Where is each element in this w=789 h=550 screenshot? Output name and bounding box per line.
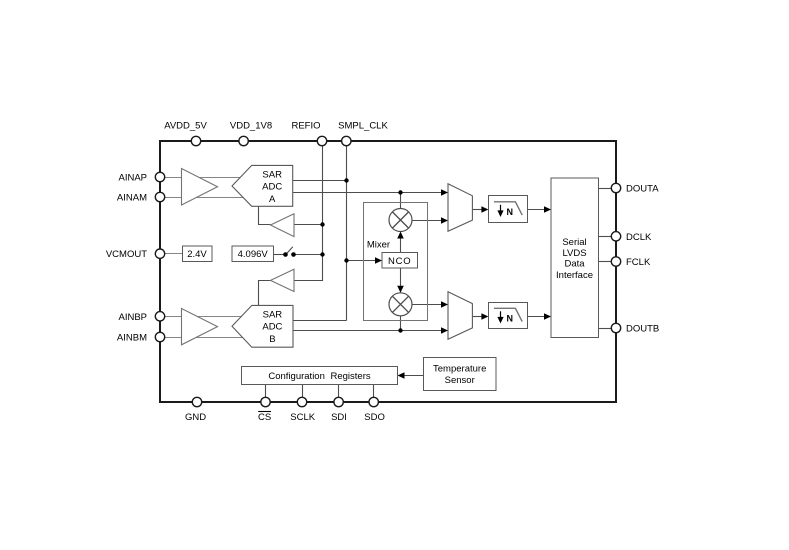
svg-text:Sensor: Sensor: [445, 375, 475, 386]
svg-text:AINBP: AINBP: [118, 312, 147, 323]
svg-text:Interface: Interface: [556, 270, 593, 281]
svg-text:AINAM: AINAM: [117, 193, 147, 204]
svg-text:LVDS: LVDS: [562, 248, 586, 259]
svg-text:SMPL_CLK: SMPL_CLK: [338, 120, 388, 131]
svg-text:Data: Data: [564, 259, 585, 270]
svg-text:DCLK: DCLK: [626, 232, 652, 243]
svg-text:AVDD_5V: AVDD_5V: [164, 120, 207, 131]
svg-text:Serial: Serial: [562, 237, 586, 248]
svg-text:N: N: [507, 313, 514, 323]
svg-text:FCLK: FCLK: [626, 257, 651, 268]
svg-text:VDD_1V8: VDD_1V8: [230, 120, 272, 131]
svg-text:CS: CS: [258, 412, 271, 423]
svg-text:ADC: ADC: [262, 181, 282, 192]
svg-text:AINBM: AINBM: [117, 332, 147, 343]
svg-text:DOUTB: DOUTB: [626, 324, 659, 335]
svg-text:2.4V: 2.4V: [187, 249, 207, 260]
svg-text:A: A: [269, 194, 276, 205]
svg-text:ADC: ADC: [262, 321, 282, 332]
svg-text:N: N: [507, 207, 514, 217]
svg-text:GND: GND: [185, 412, 206, 423]
svg-text:NCO: NCO: [388, 256, 412, 267]
svg-text:SDO: SDO: [364, 412, 385, 423]
svg-text:SAR: SAR: [263, 309, 283, 320]
svg-text:DOUTA: DOUTA: [626, 184, 659, 195]
svg-text:AINAP: AINAP: [118, 173, 147, 184]
svg-text:REFIO: REFIO: [291, 120, 320, 131]
svg-text:SAR: SAR: [262, 169, 282, 180]
svg-text:B: B: [269, 334, 275, 345]
svg-text:Configuration Registers: Configuration Registers: [268, 371, 371, 382]
svg-text:SCLK: SCLK: [290, 412, 315, 423]
svg-text:VCMOUT: VCMOUT: [106, 249, 147, 260]
svg-text:Mixer: Mixer: [367, 239, 390, 250]
svg-text:SDI: SDI: [331, 412, 347, 423]
svg-text:4.096V: 4.096V: [238, 249, 269, 260]
svg-text:Temperature: Temperature: [433, 364, 486, 375]
